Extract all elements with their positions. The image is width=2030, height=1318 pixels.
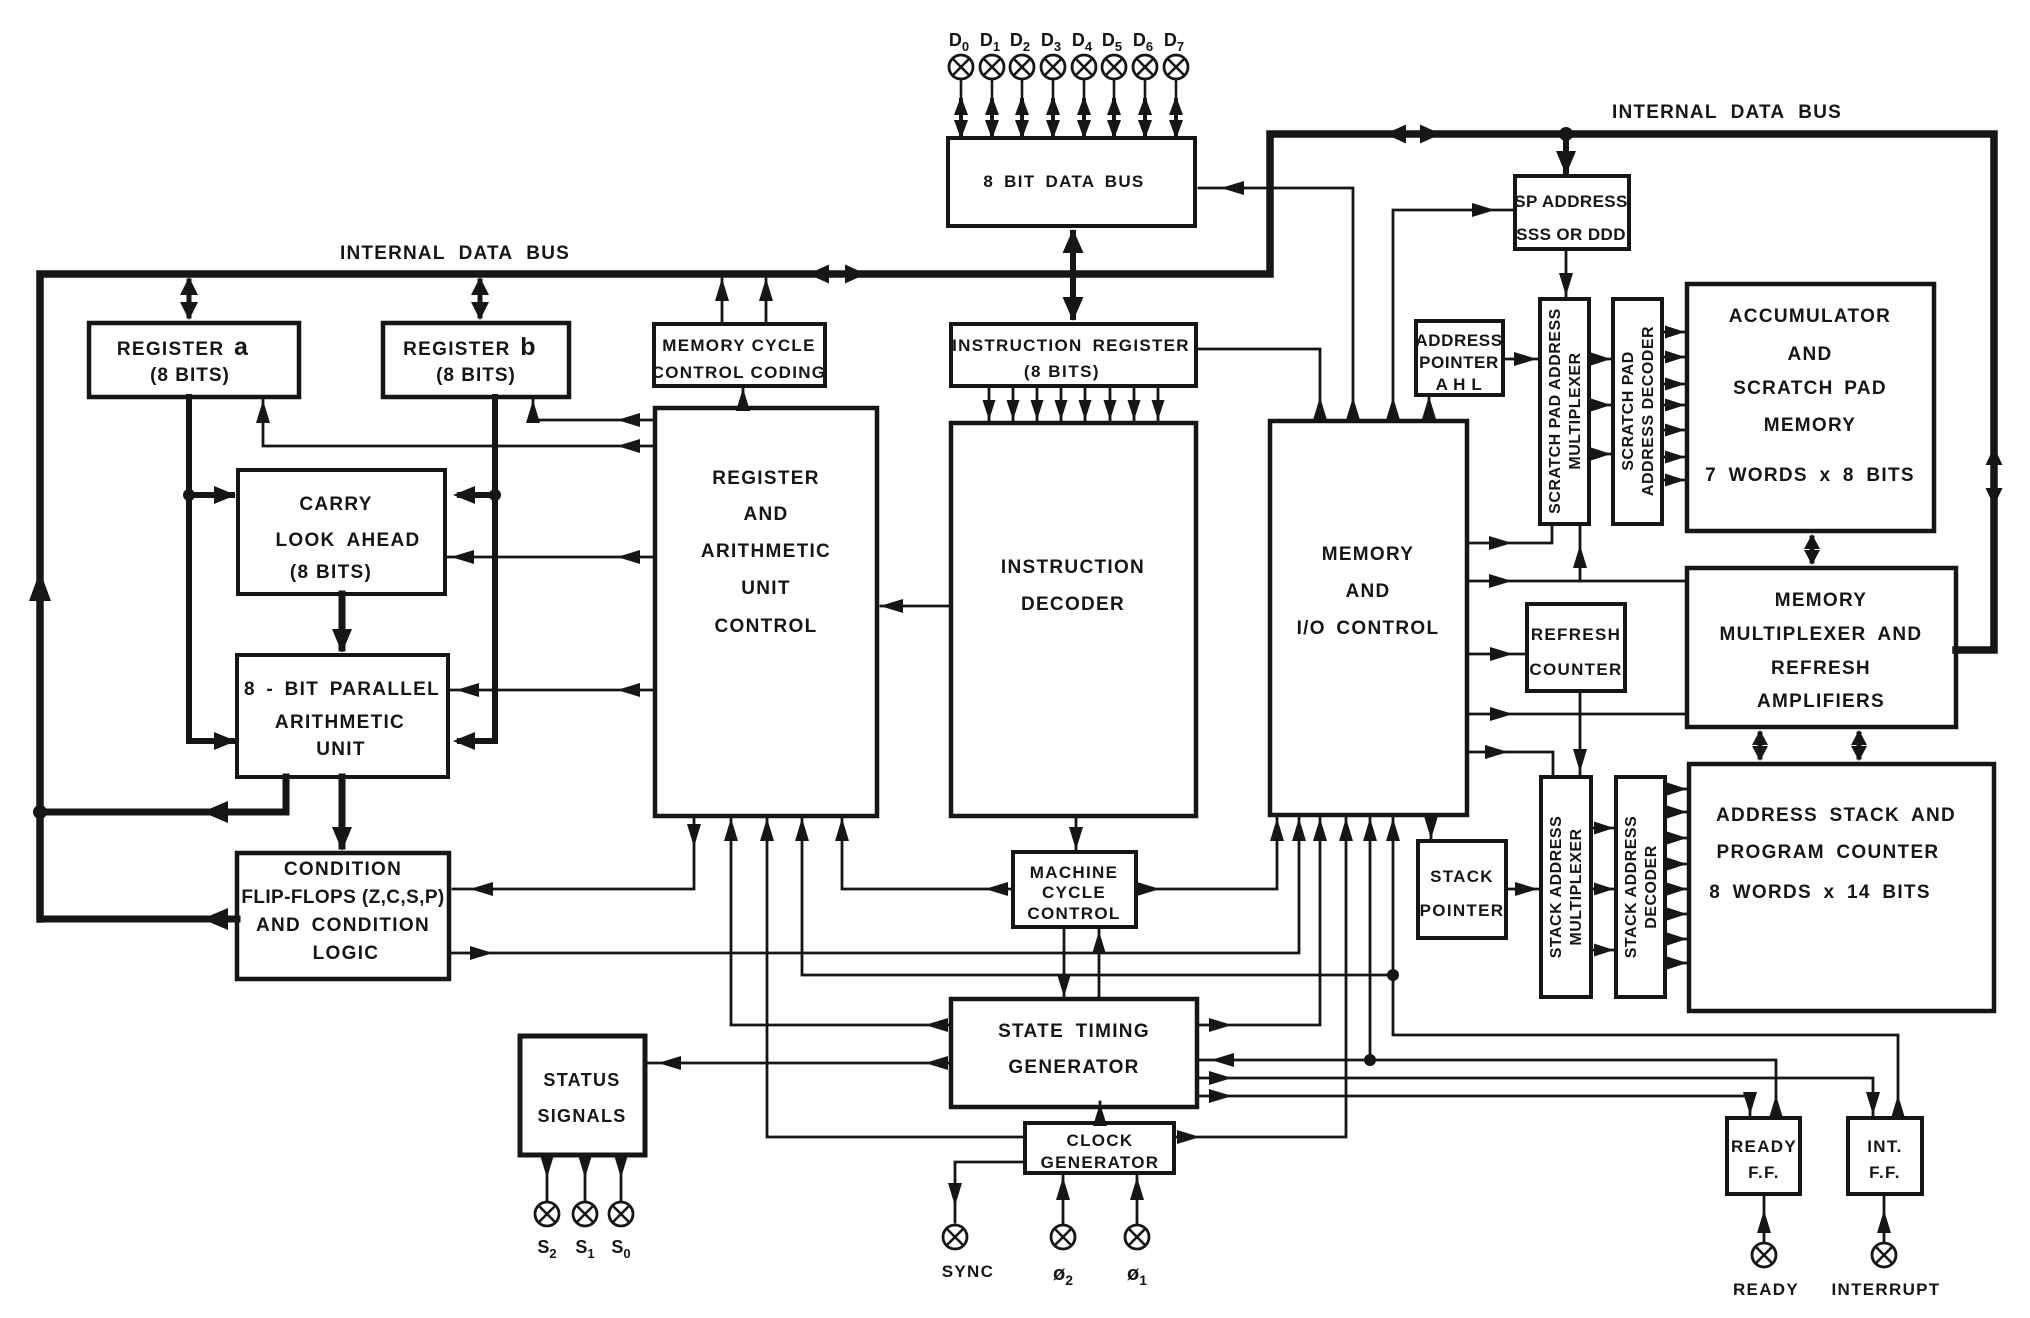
svg-text:LOOK AHEAD: LOOK AHEAD	[275, 530, 420, 551]
svg-text:AND: AND	[1345, 581, 1390, 602]
svg-text:CLOCK: CLOCK	[1067, 1131, 1134, 1150]
svg-text:(8 BITS): (8 BITS)	[436, 365, 516, 386]
svg-text:8 BIT DATA BUS: 8 BIT DATA BUS	[983, 172, 1144, 191]
svg-text:LOGIC: LOGIC	[313, 943, 380, 964]
svg-text:CONTROL: CONTROL	[714, 616, 817, 637]
svg-text:MULTIPLEXER: MULTIPLEXER	[1568, 828, 1585, 945]
svg-text:REFRESH: REFRESH	[1531, 625, 1621, 644]
svg-text:I/O CONTROL: I/O CONTROL	[1297, 618, 1440, 639]
svg-text:PROGRAM COUNTER: PROGRAM COUNTER	[1717, 842, 1940, 863]
svg-text:8 WORDS x 14 BITS: 8 WORDS x 14 BITS	[1709, 882, 1931, 903]
svg-text:STACK ADDRESS: STACK ADDRESS	[1623, 816, 1640, 959]
svg-text:DECODER: DECODER	[1021, 594, 1125, 615]
svg-text:UNIT: UNIT	[316, 739, 366, 760]
svg-text:(8 BITS): (8 BITS)	[290, 562, 372, 583]
svg-text:MACHINE: MACHINE	[1030, 863, 1118, 882]
svg-text:INT.: INT.	[1867, 1137, 1902, 1156]
svg-text:SIGNALS: SIGNALS	[537, 1106, 626, 1126]
svg-text:UNIT: UNIT	[741, 578, 791, 599]
svg-text:READY: READY	[1731, 1137, 1797, 1156]
svg-text:SCRATCH PAD: SCRATCH PAD	[1620, 351, 1637, 471]
svg-text:STACK: STACK	[1430, 867, 1494, 886]
svg-text:SCRATCH PAD: SCRATCH PAD	[1733, 378, 1887, 399]
svg-text:INSTRUCTION: INSTRUCTION	[1001, 557, 1145, 578]
svg-text:MEMORY: MEMORY	[1775, 590, 1868, 611]
svg-text:CARRY: CARRY	[299, 494, 372, 515]
svg-text:F.F.: F.F.	[1869, 1163, 1901, 1182]
svg-text:INSTRUCTION REGISTER: INSTRUCTION REGISTER	[952, 336, 1190, 355]
svg-text:STACK ADDRESS: STACK ADDRESS	[1548, 816, 1565, 959]
svg-text:STATE TIMING: STATE TIMING	[998, 1021, 1150, 1042]
svg-text:AND CONDITION: AND CONDITION	[256, 915, 430, 936]
svg-text:ADDRESS DECODER: ADDRESS DECODER	[1640, 326, 1657, 496]
svg-text:POINTER: POINTER	[1419, 353, 1499, 372]
svg-text:CONDITION: CONDITION	[284, 859, 402, 880]
svg-text:REGISTER: REGISTER	[712, 468, 820, 489]
svg-text:ADDRESS STACK AND: ADDRESS STACK AND	[1716, 805, 1956, 826]
svg-text:ADDRESS: ADDRESS	[1415, 331, 1502, 350]
svg-text:COUNTER: COUNTER	[1529, 660, 1622, 679]
svg-text:REFRESH: REFRESH	[1771, 658, 1871, 679]
svg-text:READY: READY	[1733, 1280, 1799, 1299]
svg-text:MEMORY: MEMORY	[1764, 415, 1857, 436]
svg-text:POINTER: POINTER	[1420, 901, 1505, 920]
svg-text:7 WORDS x 8 BITS: 7 WORDS x 8 BITS	[1705, 465, 1915, 486]
svg-text:CYCLE: CYCLE	[1042, 883, 1106, 902]
svg-text:DECODER: DECODER	[1643, 845, 1660, 929]
svg-text:MEMORY: MEMORY	[1322, 544, 1415, 565]
svg-text:F.F.: F.F.	[1748, 1163, 1780, 1182]
svg-text:AND: AND	[743, 504, 788, 525]
svg-text:CONTROL: CONTROL	[1027, 904, 1120, 923]
svg-text:8 - BIT PARALLEL: 8 - BIT PARALLEL	[244, 679, 440, 700]
svg-text:ARITHMETIC: ARITHMETIC	[275, 712, 405, 733]
svg-text:A H L: A H L	[1436, 375, 1483, 394]
svg-text:INTERNAL DATA BUS: INTERNAL DATA BUS	[340, 243, 570, 264]
svg-text:(8 BITS): (8 BITS)	[150, 365, 230, 386]
svg-text:GENERATOR: GENERATOR	[1041, 1153, 1160, 1172]
svg-text:MEMORY CYCLE: MEMORY CYCLE	[662, 336, 816, 355]
svg-text:AMPLIFIERS: AMPLIFIERS	[1757, 691, 1885, 712]
svg-text:STATUS: STATUS	[543, 1070, 620, 1090]
svg-text:MULTIPLEXER: MULTIPLEXER	[1567, 352, 1584, 469]
svg-text:ARITHMETIC: ARITHMETIC	[701, 541, 831, 562]
svg-text:SCRATCH PAD ADDRESS: SCRATCH PAD ADDRESS	[1547, 308, 1564, 514]
svg-text:ACCUMULATOR: ACCUMULATOR	[1729, 306, 1891, 327]
svg-text:MULTIPLEXER AND: MULTIPLEXER AND	[1720, 624, 1923, 645]
svg-text:(8 BITS): (8 BITS)	[1024, 362, 1100, 381]
svg-text:FLIP-FLOPS (Z,C,S,P): FLIP-FLOPS (Z,C,S,P)	[241, 887, 444, 908]
svg-text:INTERRUPT: INTERRUPT	[1832, 1280, 1941, 1299]
svg-text:INTERNAL DATA BUS: INTERNAL DATA BUS	[1612, 102, 1842, 123]
svg-text:SYNC: SYNC	[942, 1262, 994, 1281]
svg-text:GENERATOR: GENERATOR	[1008, 1057, 1139, 1078]
svg-text:CONTROL CODING: CONTROL CODING	[652, 363, 827, 382]
svg-text:SP ADDRESS: SP ADDRESS	[1514, 192, 1628, 211]
svg-text:AND: AND	[1787, 344, 1832, 365]
svg-text:SSS OR DDD: SSS OR DDD	[1516, 225, 1626, 244]
